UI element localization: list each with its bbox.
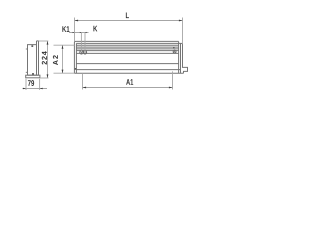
dimension 224	[39, 41, 49, 78]
left side view screw dots	[31, 45, 33, 74]
main view right end cap	[179, 41, 188, 73]
right end small mark	[173, 47, 174, 48]
left end cap screw dot	[75, 68, 77, 70]
groove lines over holes	[79, 51, 176, 54]
left side view edge ticks	[26, 49, 28, 72]
label 224	[42, 51, 47, 64]
dimension A2	[54, 45, 75, 73]
label 79	[28, 80, 34, 86]
label K	[93, 26, 97, 32]
hole right	[173, 50, 176, 53]
main front view body lines	[74, 41, 183, 73]
dimension A1	[83, 71, 173, 89]
label L	[126, 12, 129, 18]
dimension 79	[23, 79, 48, 90]
left side view outline	[26, 41, 40, 78]
dimension K1 / K	[69, 33, 89, 51]
label A2	[53, 55, 58, 65]
hole center dots	[81, 51, 175, 53]
label A1	[126, 79, 133, 85]
label K1	[62, 26, 69, 32]
dimension L	[75, 18, 183, 44]
mounting holes left pair	[80, 50, 176, 54]
